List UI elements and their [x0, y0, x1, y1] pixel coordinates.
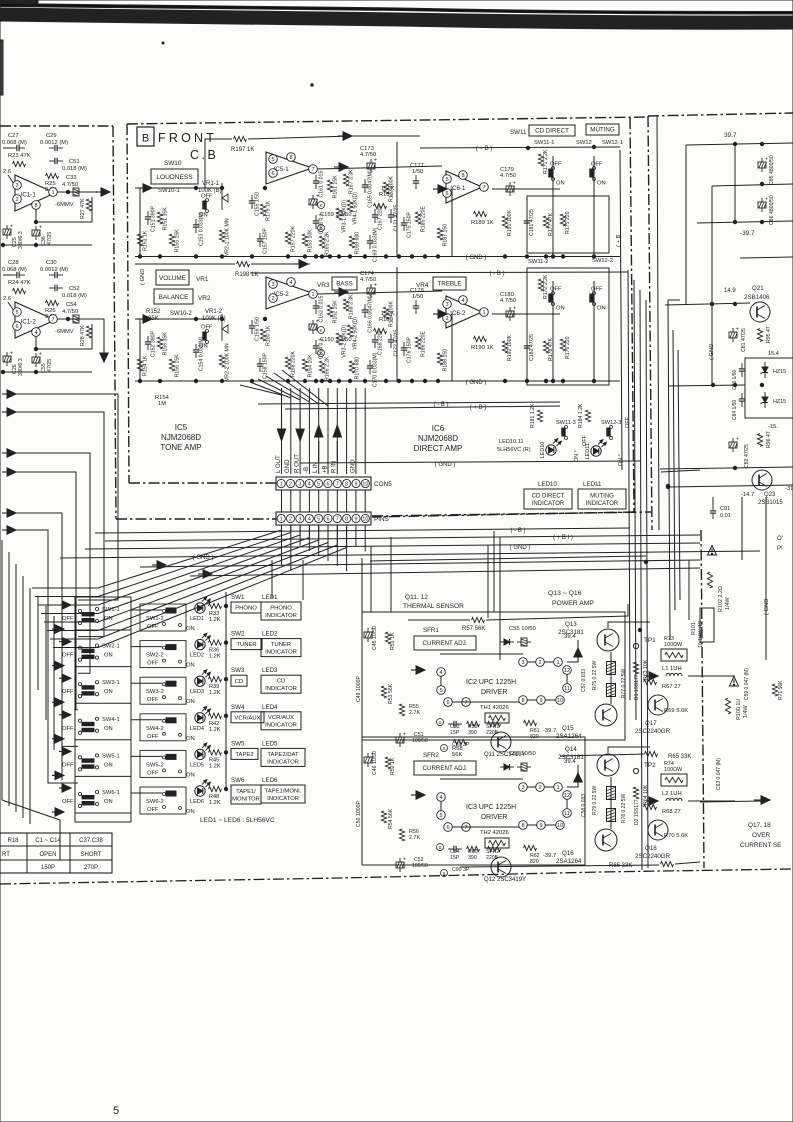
wire IC1-1 bottom bus [3, 244, 92, 246]
svg-text:D2 1SS177: D2 1SS177 [634, 799, 640, 825]
warning triangle 1 [708, 545, 717, 555]
svg-text:SW12-3: SW12-3 [601, 420, 621, 426]
svg-text:C158 150P: C158 150P [263, 352, 269, 378]
svg-text:SW1: SW1 [231, 594, 245, 601]
capacitor C164 [315, 340, 317, 346]
wire SW1-1 row sep [75, 629, 131, 631]
svg-text:ON °: ON ° [574, 450, 580, 462]
wire gnd right vertical [765, 497, 767, 660]
svg-text:R57 56K: R57 56K [462, 626, 485, 632]
svg-text:SW4: SW4 [231, 704, 245, 711]
wire led row r 5 [208, 788, 210, 790]
svg-text:C86 4800/50: C86 4800/50 [769, 195, 775, 225]
svg-text:100ΩW: 100ΩW [664, 642, 683, 648]
svg-text:Q18: Q18 [645, 845, 657, 852]
SW1 input box [231, 602, 261, 613]
svg-text:Q16: Q16 [562, 850, 574, 857]
capacitor C172 [390, 334, 392, 340]
wire +B stage1 [420, 147, 620, 148]
junction led row 5 [224, 787, 227, 790]
svg-text:C172 47/25: C172 47/25 [394, 330, 400, 357]
svg-text:12: 12 [564, 668, 570, 674]
resistor R169 [349, 236, 354, 248]
capacitor C28 [11, 274, 17, 276]
inductor L2 symbol [666, 798, 670, 801]
wire feedback drop IC5-2 [396, 267, 398, 381]
svg-text:8: 8 [345, 516, 348, 522]
wire fan continuation vertical 3 [61, 626, 63, 780]
svg-text:+: + [39, 352, 42, 358]
svg-text:C33: C33 [66, 175, 77, 181]
switch row2 sub box [527, 268, 609, 385]
svg-text:TAPE2: TAPE2 [235, 752, 253, 758]
svg-text:9: 9 [539, 823, 542, 829]
svg-text:C29: C29 [46, 133, 57, 139]
resistor R62 symbol [524, 845, 537, 850]
front board border right vertical [630, 118, 634, 512]
wire input resistors IC1-2 [3, 274, 11, 276]
wire pins fan 7 [53, 525, 347, 648]
wire driver out IC3 UPC 1225H [567, 765, 578, 787]
svg-text:6: 6 [445, 191, 448, 197]
svg-text:R77 0.22 5W: R77 0.22 5W [621, 669, 627, 698]
svg-text:ON: ON [186, 663, 195, 669]
svg-text:R191 100K: R191 100K [507, 210, 513, 236]
wire driver top IC2 UPC 1225H [440, 653, 523, 655]
resistor R155 [169, 234, 174, 246]
diode D9 [504, 639, 510, 645]
wire pin drop x328 [327, 388, 329, 474]
resistor R48 [209, 786, 222, 791]
svg-text:1: 1 [311, 292, 314, 298]
svg-text:4: 4 [461, 298, 464, 304]
wire q13 collector [608, 622, 650, 628]
svg-text:3: 3 [298, 516, 301, 522]
inductor L1 symbol [666, 673, 670, 676]
arrow bus row6 [198, 573, 206, 575]
svg-text:VOLUME: VOLUME [159, 275, 186, 282]
connector CON5 [276, 477, 371, 490]
wire IC5-2 out [317, 291, 442, 294]
resistor R186 [415, 337, 420, 349]
wire R66 right [675, 862, 700, 864]
resistor R53 symbol [381, 686, 386, 698]
circle S mark 1 [437, 844, 444, 851]
LED LED11 [591, 446, 601, 456]
svg-text:( GND ): ( GND ) [510, 545, 531, 551]
wire IC3 UPC 1225H pin col b [566, 799, 568, 809]
wire stage bottom bus [135, 256, 620, 258]
wire rail3 -39.7 [697, 221, 793, 223]
wire hbund corner b [661, 470, 700, 472]
svg-text:LED4: LED4 [262, 704, 278, 711]
circle S mark 2 [441, 745, 448, 752]
wire input IC5-2 [135, 318, 146, 320]
op-amp IC6-2 [446, 296, 482, 328]
svg-text:SW12-1: SW12-1 [602, 140, 623, 146]
op-amp IC1-2 [15, 302, 55, 338]
resistor R102 symbol [707, 572, 712, 588]
svg-text:4: 4 [439, 795, 442, 801]
switch row1 sub box [527, 196, 609, 253]
svg-text:RT: RT [2, 852, 10, 858]
front board border bottom right [372, 512, 634, 517]
wire PINS drop x318 [318, 525, 320, 556]
svg-text:C176 150P: C176 150P [407, 336, 413, 362]
wire IC3 UPC 1225H pin row c [545, 824, 556, 826]
svg-text:C167 220P: C167 220P [378, 203, 384, 229]
wire IC1-2 output [57, 318, 92, 320]
svg-text:VCR/AUX: VCR/AUX [234, 715, 260, 721]
resistor R175 [560, 214, 565, 226]
svg-text:7: 7 [482, 185, 485, 191]
svg-text:+: + [374, 158, 377, 164]
arrow stage2 in [294, 263, 302, 265]
junction stage mid [263, 186, 266, 189]
op-amp IC3 UPC 1225H pin 12 [563, 791, 572, 800]
wire 2.6 lead [8, 175, 16, 187]
op-amp IC3 UPC 1225H pin 5 [437, 811, 446, 820]
resistor R57 [472, 617, 485, 622]
resistor R101 box [700, 608, 714, 642]
svg-text:CD: CD [277, 679, 286, 685]
svg-text:6: 6 [446, 700, 449, 706]
wire pa feed a [361, 558, 363, 612]
resistor R64 symbol [633, 787, 638, 799]
arrow output right [754, 799, 764, 801]
svg-text:SW6-1: SW6-1 [102, 790, 120, 796]
SW4 input box [231, 712, 264, 723]
arrow into SW1-1 [59, 604, 65, 606]
svg-text:IC6-1: IC6-1 [450, 185, 466, 192]
resistor R74 symbol [661, 774, 687, 786]
LED6 indicator box [261, 785, 305, 803]
op-amp IC2 UPC 1225H pin 7 [462, 698, 471, 707]
svg-text:SW4-2: SW4-2 [146, 726, 164, 732]
wire c91 branch [712, 497, 714, 505]
svg-text:R156 15K: R156 15K [175, 354, 181, 378]
svg-text:VR3: VR3 [317, 282, 330, 289]
svg-text:R156 35K: R156 35K [163, 332, 169, 356]
svg-text:R63 10K: R63 10K [643, 659, 649, 680]
wire pin drop x290 [290, 388, 292, 474]
LED1 indicator box [261, 602, 301, 620]
svg-text:330/6.3: 330/6.3 [18, 231, 24, 249]
svg-text:R174 100K: R174 100K [389, 300, 395, 326]
wire pin drop x365 [364, 388, 366, 474]
svg-text:R187 150: R187 150 [443, 224, 449, 247]
svg-text:5: 5 [439, 813, 442, 819]
svg-text:OFF: OFF [62, 689, 74, 695]
wire pa feed b [370, 546, 372, 612]
arrow output Q14 [577, 780, 579, 787]
resistor R178 [543, 341, 548, 353]
resistor R61 symbol [524, 720, 537, 725]
treble box [433, 277, 466, 290]
resistor R39 [209, 677, 222, 682]
wire CON5 to PINS x281 [281, 490, 283, 512]
SW2 input box [231, 639, 262, 650]
LED2 indicator box [261, 639, 301, 657]
wire left input 5 [16, 513, 78, 746]
wire SW11-1 drop [552, 156, 554, 257]
wire pin drop x355 [355, 388, 357, 474]
svg-text:15.4: 15.4 [768, 351, 779, 357]
svg-text:-14.7: -14.7 [741, 492, 754, 498]
svg-text:( GND ): ( GND ) [435, 462, 456, 468]
switch SW4-1 contacts [78, 719, 81, 722]
wire driver top IC3 UPC 1225H [440, 778, 523, 780]
svg-text:VR1-2: VR1-2 [205, 309, 223, 315]
resistor R33 [209, 603, 222, 608]
svg-text:1.2K: 1.2K [209, 690, 221, 696]
svg-text:4.7/50: 4.7/50 [62, 182, 78, 188]
wire SW3-1 row sep [75, 702, 131, 704]
switch SW11-2 symbol [552, 292, 555, 295]
wire IC3 UPC 1225H pin col a [440, 801, 442, 811]
svg-text:5: 5 [317, 516, 320, 522]
svg-text:C152 390P: C152 390P [151, 330, 157, 356]
svg-text:-6MMV: -6MMV [55, 329, 74, 335]
resistor R151 [157, 212, 162, 224]
wire cluster drop b [451, 314, 453, 381]
svg-text:TAPE2/DAT: TAPE2/DAT [267, 752, 299, 758]
resistor R51 symbol [385, 632, 390, 644]
SFR2 current adj box [414, 761, 476, 775]
transistor Q11 [491, 732, 511, 752]
svg-text:S: S [442, 746, 445, 751]
svg-text:2: 2 [538, 785, 541, 791]
svg-text:2SB1406: 2SB1406 [744, 294, 770, 301]
connector PINS [276, 512, 371, 525]
svg-text:C163 0.1: C163 0.1 [319, 213, 325, 234]
svg-text:3: 3 [445, 302, 448, 308]
svg-text:VR2-2 100K MN: VR2-2 100K MN [225, 343, 231, 381]
resistor R58 [454, 739, 467, 744]
svg-text:R175 220: R175 220 [565, 211, 571, 234]
pot VR3-2 [336, 333, 341, 345]
svg-text:SW10-2: SW10-2 [170, 311, 192, 317]
capacitor C82 symbol [729, 442, 737, 448]
svg-text:TUNER: TUNER [236, 642, 256, 648]
op-amp IC2 UPC 1225H pin 9 [537, 696, 546, 705]
wire far left vertical 1 [8, 552, 10, 806]
svg-text:SW10-1: SW10-1 [158, 188, 180, 194]
wire far left vertical 2 [15, 564, 17, 812]
svg-text:R54 56K: R54 56K [388, 808, 394, 829]
junction led row 0 [224, 604, 227, 607]
capacitor C33 symbol [73, 188, 79, 196]
arrow into SW4-1 b [52, 738, 58, 740]
svg-text:4: 4 [289, 280, 292, 286]
wire bus GND long [85, 543, 700, 549]
svg-text:R166 2.2K: R166 2.2K [325, 356, 331, 381]
transistor Q14 [597, 754, 619, 776]
svg-text:LED5: LED5 [262, 740, 278, 747]
svg-text:5: 5 [113, 1105, 119, 1117]
svg-text:PHONO: PHONO [235, 606, 257, 612]
arrow left input 2 [2, 411, 10, 413]
svg-text:OFF: OFF [201, 325, 213, 331]
switch SW1-1 contacts [78, 609, 81, 612]
svg-text:0.0012 (M): 0.0012 (M) [40, 140, 68, 146]
svg-text:C169 0.033(M): C169 0.033(M) [373, 227, 379, 262]
wire 14.9 rail [665, 303, 750, 305]
svg-text:R162 15K: R162 15K [333, 300, 339, 324]
svg-text:9: 9 [355, 516, 358, 522]
svg-text:OFF: OFF [147, 734, 159, 740]
svg-text:C85 4800/50: C85 4800/50 [769, 155, 775, 185]
wire far left low horiz [2, 800, 60, 860]
wire far left vertical 4 [29, 588, 31, 824]
svg-text:( + B: ( + B [616, 234, 622, 247]
svg-text:BASS: BASS [336, 281, 353, 288]
svg-text:7: 7 [336, 481, 339, 487]
wire led row 0 [131, 609, 162, 611]
wire left input 6 [16, 530, 78, 783]
resistor R45 [209, 750, 222, 755]
switch SW2-2 box [140, 641, 186, 668]
resistor R190 [474, 336, 487, 341]
wire bus -B long [95, 528, 630, 533]
svg-text:TONE AMP: TONE AMP [160, 443, 201, 452]
wire IC1-2 bottom bus [3, 371, 92, 373]
svg-text:R101: R101 [691, 622, 697, 635]
svg-text:SW3: SW3 [231, 667, 245, 674]
svg-text:C175 150P: C175 150P [407, 211, 413, 237]
svg-text:C182 47/25: C182 47/25 [529, 334, 535, 361]
resistor R154 [137, 359, 142, 371]
svg-text:SW11: SW11 [510, 129, 527, 136]
svg-text:K: K [319, 203, 322, 208]
junction SW11-2 [551, 379, 554, 382]
resistor R100 symbol [725, 698, 730, 714]
front board border top [127, 117, 648, 124]
svg-text:R170 680: R170 680 [355, 357, 361, 380]
svg-text:( GND: ( GND [764, 599, 770, 615]
resistor R73 symbol [661, 649, 687, 661]
wire left input 1 [16, 394, 118, 600]
svg-text:VR4-2 50K(D): VR4-2 50K(D) [353, 317, 359, 350]
svg-text:IC3 UPC 1225H: IC3 UPC 1225H [466, 804, 516, 811]
svg-text:TP1: TP1 [644, 637, 656, 644]
svg-text:2.6: 2.6 [3, 169, 11, 175]
svg-text:0.018 (M): 0.018 (M) [62, 166, 87, 172]
svg-text:C49 1000P: C49 1000P [356, 676, 362, 702]
wire R66 run [460, 865, 659, 867]
arrow left input 4 [2, 471, 10, 473]
svg-text:2.7K: 2.7K [409, 835, 420, 841]
svg-text:Q17. 18: Q17. 18 [748, 822, 771, 829]
wire pa feed e [493, 531, 495, 612]
capacitor C170 [369, 360, 371, 366]
svg-text:C54: C54 [66, 302, 77, 308]
svg-text:1/50: 1/50 [412, 169, 423, 175]
svg-text:GND: GND [349, 459, 356, 473]
svg-text:MUTING: MUTING [590, 493, 614, 499]
svg-text:11: 11 [564, 686, 570, 692]
cd direct box [529, 125, 575, 136]
svg-text:C56 10/50: C56 10/50 [509, 751, 536, 757]
svg-text:2: 2 [271, 296, 274, 302]
wire pins fan 2 [38, 525, 300, 605]
svg-text:15P: 15P [450, 730, 460, 736]
wire vertical bus 2 [640, 290, 642, 870]
capacitor C179 symbol [506, 186, 514, 192]
test point TP1 [633, 643, 638, 648]
svg-text:LED3: LED3 [190, 689, 204, 695]
wire pin drop x309 [308, 388, 310, 474]
arrow into SW3-1 [59, 677, 65, 679]
wire IC2 UPC 1225H pin top b [544, 661, 554, 663]
svg-text:CON5: CON5 [374, 481, 392, 488]
zener diode D5 HZ15 [762, 367, 768, 373]
junction 14.9 rail [710, 302, 713, 305]
svg-text:SW5-2: SW5-2 [146, 762, 164, 768]
muting indicator box [578, 489, 626, 509]
svg-text:1/50: 1/50 [412, 294, 423, 300]
svg-text:1.2K: 1.2K [209, 617, 221, 623]
svg-text:C45 10/50: C45 10/50 [372, 626, 378, 650]
LED5 indicator box [261, 748, 305, 766]
resistor R184 [585, 410, 590, 422]
capacitor C53 symbol [448, 723, 454, 725]
svg-text:C1 ~ C14: C1 ~ C14 [35, 838, 61, 844]
wire PINS drop x365 [364, 525, 366, 551]
svg-text:S: S [438, 720, 441, 725]
svg-text:Q21: Q21 [752, 285, 764, 292]
transistor Q18 [648, 820, 668, 840]
svg-text:14.9: 14.9 [724, 288, 736, 294]
circle K mark b [318, 225, 325, 232]
svg-text:B: B [142, 133, 149, 145]
svg-text:2.7K: 2.7K [409, 710, 420, 716]
svg-text:R151 35K: R151 35K [163, 207, 169, 231]
wire pins fan 5 [47, 525, 328, 631]
capacitor C158 [259, 358, 261, 364]
svg-text:CD: CD [235, 679, 244, 685]
capacitor C155 [251, 195, 253, 201]
svg-text:LED1: LED1 [262, 594, 278, 601]
svg-text:OFF: OFF [147, 661, 159, 667]
svg-text:10: 10 [362, 516, 368, 522]
wire led row r 2 [208, 678, 210, 680]
pot SFR2 symbol [488, 846, 501, 851]
pot VR1-1 wiper [221, 183, 223, 210]
svg-text:Q17: Q17 [645, 720, 657, 727]
svg-text:R IN: R IN [331, 461, 338, 473]
svg-text:CURRENT ADJ.: CURRENT ADJ. [423, 640, 468, 647]
arrow IC1-1 out [96, 191, 104, 193]
resistor R177 [543, 216, 548, 228]
power amp box upper [362, 612, 625, 740]
svg-text:OFF: OFF [147, 697, 159, 703]
op-amp IC3 UPC 1225H pin 7 [462, 823, 471, 832]
arrow feedback top [338, 135, 346, 137]
svg-text:SW3-2: SW3-2 [146, 689, 164, 695]
svg-text:SW12-2: SW12-2 [592, 258, 613, 264]
svg-text:D1 1SS177: D1 1SS177 [634, 674, 640, 700]
arrow into SW2-1 b [52, 665, 58, 667]
wire IC2 UPC 1225H pin row c [545, 699, 556, 701]
zener box [745, 358, 793, 418]
svg-text:ON: ON [186, 626, 195, 632]
wire led row r 3 [208, 715, 210, 717]
svg-text:SW6-2: SW6-2 [146, 799, 164, 805]
capacitor C174 symbol [367, 288, 375, 294]
resistor R159 [374, 203, 387, 208]
wire 39.7 rail [686, 143, 793, 145]
